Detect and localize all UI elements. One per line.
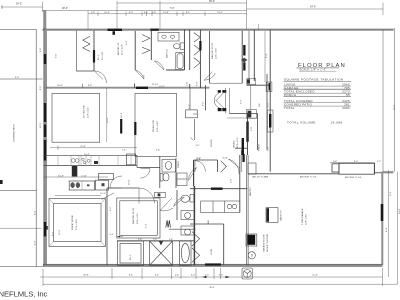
svg-text:MASTER SUITE: MASTER SUITE xyxy=(211,42,214,59)
svg-text:2'-10": 2'-10" xyxy=(81,175,87,177)
svg-text:2'-8": 2'-8" xyxy=(138,239,143,241)
svg-text:3'-0": 3'-0" xyxy=(241,99,243,104)
svg-text:9'-4": 9'-4" xyxy=(390,191,392,196)
svg-text:10'-6": 10'-6" xyxy=(84,154,90,156)
svg-text:2'-8": 2'-8" xyxy=(231,178,233,183)
svg-text:9'-4": 9'-4" xyxy=(155,275,160,277)
svg-text:38'-0": 38'-0" xyxy=(209,0,215,3)
svg-text:2'-8": 2'-8" xyxy=(251,126,253,131)
svg-text:21'-8": 21'-8" xyxy=(80,146,86,148)
svg-text:10'-4": 10'-4" xyxy=(104,12,110,14)
svg-text:SQUARE FOOTAGE TABULATION: SQUARE FOOTAGE TABULATION xyxy=(284,78,344,82)
svg-text:5'-4": 5'-4" xyxy=(189,104,191,109)
svg-text:PWDR.: PWDR. xyxy=(178,160,180,168)
svg-text:15'-0": 15'-0" xyxy=(217,12,223,14)
svg-text:3'-0": 3'-0" xyxy=(205,275,210,277)
svg-text:NEFLMLS, Inc: NEFLMLS, Inc xyxy=(0,289,48,298)
svg-text:DINING: DINING xyxy=(234,140,236,148)
svg-text:BED RM. #3: BED RM. #3 xyxy=(118,42,120,55)
svg-text:5'-0": 5'-0" xyxy=(191,275,196,277)
svg-text:W/D: W/D xyxy=(208,219,210,224)
svg-text:5'-0": 5'-0" xyxy=(110,206,112,211)
svg-text:21'-8": 21'-8" xyxy=(222,158,228,160)
svg-text:5'-4": 5'-4" xyxy=(109,234,114,236)
svg-text:8'-4": 8'-4" xyxy=(266,53,268,58)
svg-text:9'-8": 9'-8" xyxy=(40,47,42,52)
svg-text:9'-0": 9'-0" xyxy=(354,161,359,163)
svg-text:9'-0": 9'-0" xyxy=(129,12,134,14)
svg-text:8'-0": 8'-0" xyxy=(40,85,42,90)
svg-text:GREAT ROOM: GREAT ROOM xyxy=(71,215,74,230)
svg-text:WATER HTR.: WATER HTR. xyxy=(280,210,283,221)
svg-text:W.I.C.: W.I.C. xyxy=(98,54,100,60)
svg-text:5'-0": 5'-0" xyxy=(267,102,269,107)
svg-text:ABV. WDW. TO JLS.: ABV. WDW. TO JLS. xyxy=(345,176,362,179)
svg-text:BATH #2: BATH #2 xyxy=(166,49,169,58)
svg-text:8'-0": 8'-0" xyxy=(53,231,55,236)
svg-text:8'-0": 8'-0" xyxy=(202,101,204,106)
svg-text:ABV. WDW. TO JLS.: ABV. WDW. TO JLS. xyxy=(300,175,317,178)
svg-text:19'-4": 19'-4" xyxy=(121,112,123,118)
svg-text:19,088: 19,088 xyxy=(331,120,343,124)
svg-text:2'-8": 2'-8" xyxy=(143,74,145,79)
svg-text:7'-0": 7'-0" xyxy=(153,239,158,241)
svg-text:5'-4": 5'-4" xyxy=(146,223,148,228)
svg-text:12'-0": 12'-0" xyxy=(59,229,61,235)
svg-text:7'-0": 7'-0" xyxy=(170,7,175,10)
svg-text:16'-0": 16'-0" xyxy=(57,85,63,87)
svg-text:15'-0": 15'-0" xyxy=(159,86,165,88)
svg-text:5'-0": 5'-0" xyxy=(268,146,270,151)
svg-text:SLOPE TO DOOR: SLOPE TO DOOR xyxy=(267,234,269,252)
svg-text:3'-0": 3'-0" xyxy=(15,77,20,79)
svg-text:14'0 x 16'8: 14'0 x 16'8 xyxy=(216,48,218,59)
svg-text:3606: 3606 xyxy=(342,106,350,110)
svg-text:2'-8": 2'-8" xyxy=(333,161,338,163)
svg-text:PANTRY: PANTRY xyxy=(249,187,252,196)
svg-text:10'-8": 10'-8" xyxy=(163,12,169,14)
svg-text:16'-0": 16'-0" xyxy=(40,122,42,128)
svg-text:LIN.: LIN. xyxy=(259,103,261,107)
svg-text:9'-4": 9'-4" xyxy=(129,275,134,277)
svg-text:32'8 x 21'8: 32'8 x 21'8 xyxy=(306,214,308,225)
svg-text:24'-0": 24'-0" xyxy=(310,6,316,9)
svg-text:FOYER: FOYER xyxy=(211,139,213,147)
svg-text:11'0 x 12'8: 11'0 x 12'8 xyxy=(122,44,124,55)
svg-text:11'-4": 11'-4" xyxy=(100,193,106,195)
svg-text:2'-8": 2'-8" xyxy=(197,81,199,86)
svg-text:28'-0": 28'-0" xyxy=(62,7,68,10)
svg-text:PWDR.: PWDR. xyxy=(259,143,261,151)
svg-text:36'-0": 36'-0" xyxy=(394,104,396,110)
svg-text:TOTAL VOLUME: TOTAL VOLUME xyxy=(287,120,316,124)
svg-text:12'0 x 11'4: 12'0 x 11'4 xyxy=(87,107,89,118)
svg-text:8'-1": 8'-1" xyxy=(186,12,191,14)
svg-text:2'-8": 2'-8" xyxy=(175,275,180,277)
svg-text:11'8 x 12'0: 11'8 x 12'0 xyxy=(237,137,239,148)
svg-text:2'-8": 2'-8" xyxy=(187,81,189,86)
svg-text:GAR. DR. TO JAMB: GAR. DR. TO JAMB xyxy=(252,175,269,178)
svg-text:17'4 x 19'8: 17'4 x 19'8 xyxy=(76,219,78,230)
svg-text:2'-8": 2'-8" xyxy=(169,239,174,241)
svg-text:12'0 x 14'8: 12'0 x 14'8 xyxy=(157,121,159,132)
svg-text:7'-4": 7'-4" xyxy=(122,149,127,151)
svg-text:5'0 x 8'0: 5'0 x 8'0 xyxy=(102,51,104,60)
svg-text:STOR.: STOR. xyxy=(211,248,213,255)
svg-text:2'-0": 2'-0" xyxy=(35,240,37,245)
svg-text:2'-0": 2'-0" xyxy=(195,145,200,147)
svg-text:9'-8": 9'-8" xyxy=(56,53,58,58)
svg-text:GARAGE FLOOR: GARAGE FLOOR xyxy=(263,234,266,252)
svg-text:MASTER SUITE: MASTER SUITE xyxy=(132,207,135,224)
svg-text:29'-8": 29'-8" xyxy=(83,275,89,277)
svg-text:24'-0": 24'-0" xyxy=(16,3,22,6)
svg-text:9'-8": 9'-8" xyxy=(88,85,93,87)
svg-text:2'-2": 2'-2" xyxy=(377,161,382,163)
svg-text:16'4 x 13'0: 16'4 x 13'0 xyxy=(137,213,139,224)
svg-text:9'-0": 9'-0" xyxy=(126,40,128,45)
svg-text:3 CAR GARAGE: 3 CAR GARAGE xyxy=(301,208,304,225)
svg-text:8'-0": 8'-0" xyxy=(35,210,37,215)
svg-text:2'-8": 2'-8" xyxy=(152,12,157,14)
svg-text:DINING RM.: DINING RM. xyxy=(153,119,155,132)
svg-text:SITTING RM.: SITTING RM. xyxy=(84,104,86,118)
svg-text:TOTAL: TOTAL xyxy=(284,106,295,110)
svg-text:3'-4": 3'-4" xyxy=(144,12,149,14)
svg-text:2'-8": 2'-8" xyxy=(91,12,96,14)
svg-text:2'-8": 2'-8" xyxy=(219,275,224,277)
svg-text:W.I.C.: W.I.C. xyxy=(130,254,132,260)
svg-text:10'-8": 10'-8" xyxy=(58,175,64,177)
svg-text:2'-0": 2'-0" xyxy=(197,158,202,160)
svg-text:COVERED PATIO: COVERED PATIO xyxy=(13,124,16,142)
svg-text:4'-4": 4'-4" xyxy=(386,227,388,232)
svg-text:19'-4": 19'-4" xyxy=(107,117,109,123)
svg-text:21'-8": 21'-8" xyxy=(312,275,318,277)
svg-text:12'-10": 12'-10" xyxy=(152,84,159,86)
svg-text:3'-6": 3'-6" xyxy=(156,150,161,152)
svg-text:10'-0": 10'-0" xyxy=(128,179,130,185)
svg-text:39'-4": 39'-4" xyxy=(209,287,215,289)
